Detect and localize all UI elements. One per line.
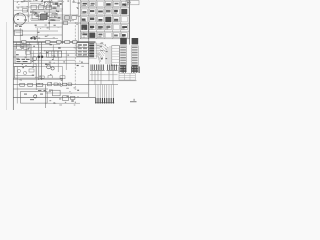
wire net v20 [19,28,21,48]
wire net v36 [35,63,37,90]
capacitor C7 marks column [52,3,60,20]
capacitor C3 bottom row [20,83,25,86]
connector CN8 table [119,73,135,80]
wire net h97 [13,96,96,98]
array left stubs [76,3,80,25]
connector CN11 top-right box [126,1,139,5]
wire stub s3 below bus [28,42,30,49]
capacitor C8 [48,83,52,86]
mid-band value labels [32,25,84,39]
diode D1 box [52,13,57,17]
wire link CN6-CN7 [90,74,118,76]
resistor R7 row parts [40,76,65,79]
control box A2 [21,92,48,104]
wire left page border [12,0,14,110]
diode D2 [71,96,75,99]
wire net h46 short [13,46,28,48]
wire net h47 [20,46,89,48]
transformer T1 core lines [16,32,22,34]
resistor network RN1 rungs [112,48,120,62]
fuse holder stack FH2 [131,46,138,72]
connector CN8 pin header right [119,67,140,74]
transistor Q1 [47,65,51,69]
connector CN9 baseline [95,102,114,104]
wire net h103 [46,102,81,104]
connector CN9 comb dark tips [96,98,114,104]
relay array K1 grid lines [80,0,129,39]
wire net h15 [13,14,78,16]
wire net v49 [48,0,50,30]
IC U1 box [47,51,62,57]
top title row text [17,0,77,3]
node N3 junction dot [30,37,32,39]
switch SW1 [53,90,61,96]
connector CN6 pin ticks [91,65,104,71]
resistor R2 on bus [46,41,50,44]
wire net v62 [61,0,63,44]
wire net v88 body right edge [88,22,90,97]
bottom value labels [49,89,80,106]
wire net h31 [13,30,58,32]
connector CN4 cells [78,44,87,56]
resistor R3 on bus [57,41,61,44]
wire net h78 double [13,77,63,79]
wire net v26 [25,42,27,58]
wire net h38 [30,38,58,40]
wire main bus h42 [13,41,95,43]
wire net v70 [69,0,71,22]
assembly A1 inner parts [16,69,35,76]
motor M1 big circle [14,13,26,25]
node N1 junction dot [38,56,41,59]
wire net v62 lower [62,67,64,85]
wire net v37 [36,28,38,45]
lamp LP1 circle [33,57,37,61]
wire horizontal h84 right [89,84,118,86]
wire net v33 [32,51,34,69]
wire grid verticals near RN1 [106,46,110,64]
fuse F1 dark square [120,38,127,44]
connector CN7 pin ticks [108,65,117,71]
power supply PS1 bottom dashes [17,59,30,62]
wire net h63 [13,62,89,64]
diode D3 box [65,16,69,20]
relay K4 cell row [81,25,127,30]
wire net v28 [27,0,29,22]
lamp LP2 circle [34,95,37,98]
assembly A1 box [15,67,37,79]
node N4 junction dot [34,37,36,39]
wire net v58 [57,51,59,73]
connector CN6 body line [90,70,105,72]
motor M1 terminal marks [15,19,27,27]
connector CN7 body line [107,70,118,72]
connector CN5 outline [89,43,97,58]
capacitor C6 dark marks [55,3,62,5]
wire net h19 [30,18,70,20]
wire net v53 [52,45,54,60]
transformer T1 box [15,30,23,36]
resistor network RN1 ladder [112,46,120,66]
relay K2 cell row [81,9,127,14]
wire dashes top-center [30,3,74,21]
wire net h93 [46,92,89,94]
capacitor C2 box [41,14,47,19]
oscillator X1 cross [45,2,51,7]
capacitor C4 bottom row [28,83,33,86]
wire stub s2 below bus [22,42,24,49]
wire net v75 dashed [74,22,76,88]
relay RY4 dark body [40,14,47,20]
wire vertical bus to bottom connector [96,85,114,104]
wire harness below CN6 [92,71,113,85]
wire net h27 [35,26,62,28]
wire net h50 [16,50,89,52]
fan area pin numbers [97,42,108,59]
value labels above A2 [38,90,53,92]
center value labels [16,44,85,68]
wire net h57 [13,56,89,58]
node N2 junction dot [41,56,44,59]
node N5 junction dot [48,22,50,24]
diode D4 box [72,16,76,20]
resistor R5 on bus [73,41,77,44]
wire horizontal h80 [89,80,137,82]
lower-left value labels [18,72,75,89]
wire net v66 [65,51,67,71]
wire net h44 [13,44,60,46]
wire net h89 [13,88,48,90]
control box A2 internals [24,94,43,101]
wire net v17 [16,67,18,104]
IC U1 pin marks [49,51,58,57]
fuse holder stack FH1 [120,46,127,72]
capacitor C9 [54,83,57,86]
lamp LP3 [58,83,61,86]
connector block CN10 outline (top-right array) [80,0,129,39]
resistor R4 on bus [65,41,70,44]
oscillator X1 box [45,2,51,7]
connector CN5 striped label block [89,43,94,57]
relay K3 cell row [81,17,127,22]
power supply PS1 box [15,45,31,64]
relay K5 cell row [81,33,127,38]
connector CN4 box [77,43,89,57]
fuse F2 dark square [132,38,139,44]
wire net h60 [30,59,75,61]
resistor R6 [62,83,66,86]
wire fan from CN5 [96,44,109,64]
diode D5 [68,83,72,86]
wire net v78 [77,0,79,42]
relay RY2 box top row [39,5,44,9]
part number text bottom right [130,99,137,103]
power supply PS1 inner cells [17,46,31,54]
wire net h35 [20,34,62,36]
wire net h11 [30,10,62,12]
wire net h23 [13,22,89,24]
wire stub s1 below bus [16,42,18,49]
capacitor C1 box [32,14,38,19]
wire net v38 [38,42,40,80]
wire net h66 [13,66,62,68]
wire net v45 [45,85,47,109]
wire net h79 [13,79,63,81]
relay RY5 small box [64,21,68,24]
wire net h84 left [13,84,89,86]
wire net h53 [30,53,89,55]
capacitor C5 bottom row [37,83,43,86]
motor M1 inner arc [16,15,24,16]
top-left value labels [17,4,59,20]
sensor B1 box [23,8,28,12]
wire net h7 [16,6,60,8]
resistor R1 on bus [22,41,26,44]
connector CN8 table lines [119,73,135,80]
switch SW2 [63,96,69,101]
wire top edge segment [14,1,60,3]
relay RY1 box top row [31,5,36,9]
transistor Q2 [51,67,54,70]
page fold shading line [6,22,8,110]
relay RY3 box top row [46,5,51,9]
wire net v41 [41,42,43,80]
wire right vertical rail [129,0,131,45]
wire net h10 short [14,9,28,11]
relay K1 cell row [81,1,127,6]
